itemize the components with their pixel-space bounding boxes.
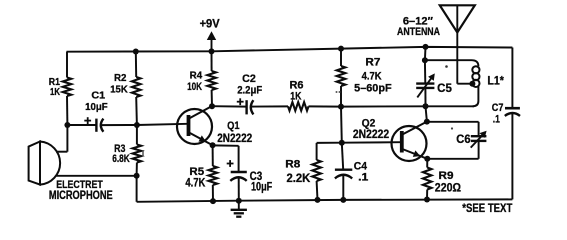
svg-text:ANTENNA: ANTENNA xyxy=(397,26,440,38)
svg-text:15K: 15K xyxy=(110,83,128,95)
svg-text:4.7K: 4.7K xyxy=(185,178,206,190)
svg-text:C7: C7 xyxy=(492,102,504,114)
svg-text:.1: .1 xyxy=(358,172,368,184)
svg-text:2.2K: 2.2K xyxy=(287,173,311,185)
svg-text:5–60pF: 5–60pF xyxy=(354,83,392,95)
svg-text:10μF: 10μF xyxy=(251,181,272,193)
svg-text:C1: C1 xyxy=(91,90,105,102)
svg-text:10K: 10K xyxy=(187,81,202,93)
svg-text:C6: C6 xyxy=(456,134,470,146)
svg-text:4.7K: 4.7K xyxy=(362,71,382,83)
svg-text:MICROPHONE: MICROPHONE xyxy=(49,190,113,202)
svg-text:R2: R2 xyxy=(114,72,127,84)
svg-text:.1: .1 xyxy=(493,114,500,126)
svg-text:R9: R9 xyxy=(439,170,454,182)
svg-text:1K: 1K xyxy=(50,86,60,98)
svg-text:1K: 1K xyxy=(290,91,301,103)
svg-text:6.8K: 6.8K xyxy=(112,153,130,165)
svg-text:L1*: L1* xyxy=(487,76,504,88)
svg-text:R7: R7 xyxy=(365,57,380,69)
svg-text:2.2μF: 2.2μF xyxy=(237,84,262,96)
svg-text:220Ω: 220Ω xyxy=(435,182,461,194)
svg-text:C2: C2 xyxy=(242,73,256,85)
svg-text:Q2: Q2 xyxy=(362,118,376,130)
svg-text:C5: C5 xyxy=(437,83,452,95)
svg-text:R4: R4 xyxy=(190,70,203,82)
svg-text:2N2222: 2N2222 xyxy=(353,129,389,141)
svg-text:*SEE TEXT: *SEE TEXT xyxy=(462,203,512,215)
svg-text:R5: R5 xyxy=(189,166,204,178)
svg-text:2N2222: 2N2222 xyxy=(217,133,252,145)
svg-text:+9V: +9V xyxy=(200,19,220,31)
svg-text:10μF: 10μF xyxy=(85,101,108,113)
svg-text:Q1: Q1 xyxy=(227,120,240,132)
svg-text:R8: R8 xyxy=(285,159,300,171)
